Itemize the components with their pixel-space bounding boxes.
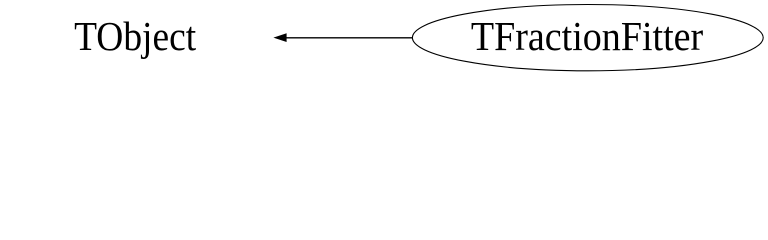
svg-text:TFractionFitter: TFractionFitter (471, 13, 704, 59)
arrowhead pointing at TObject (273, 33, 286, 42)
svg-text:TObject: TObject (74, 13, 197, 59)
node ellipse TFractionFitter (412, 5, 763, 71)
wire inheritance arrow shaft from TFractionFitter ellipse to TObject (284, 37, 413, 39)
